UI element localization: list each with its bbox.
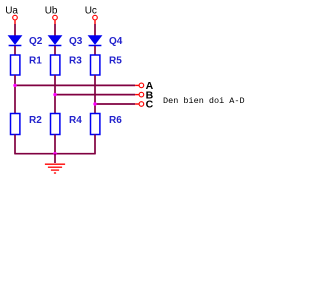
svg-text:Q4: Q4 [109, 36, 123, 47]
svg-text:R1: R1 [29, 56, 42, 67]
svg-text:Q2: Q2 [29, 36, 43, 47]
svg-text:R6: R6 [109, 115, 122, 126]
svg-text:Ua: Ua [5, 5, 18, 16]
svg-text:Ub: Ub [45, 5, 58, 16]
svg-text:R2: R2 [29, 115, 42, 126]
svg-text:Q3: Q3 [69, 36, 83, 47]
svg-text:Den bien doi A-D: Den bien doi A-D [163, 96, 245, 106]
svg-text:Uc: Uc [85, 5, 97, 16]
svg-text:R4: R4 [69, 115, 82, 126]
svg-text:C: C [146, 99, 154, 111]
svg-text:R3: R3 [69, 56, 82, 67]
svg-text:R5: R5 [109, 56, 122, 67]
